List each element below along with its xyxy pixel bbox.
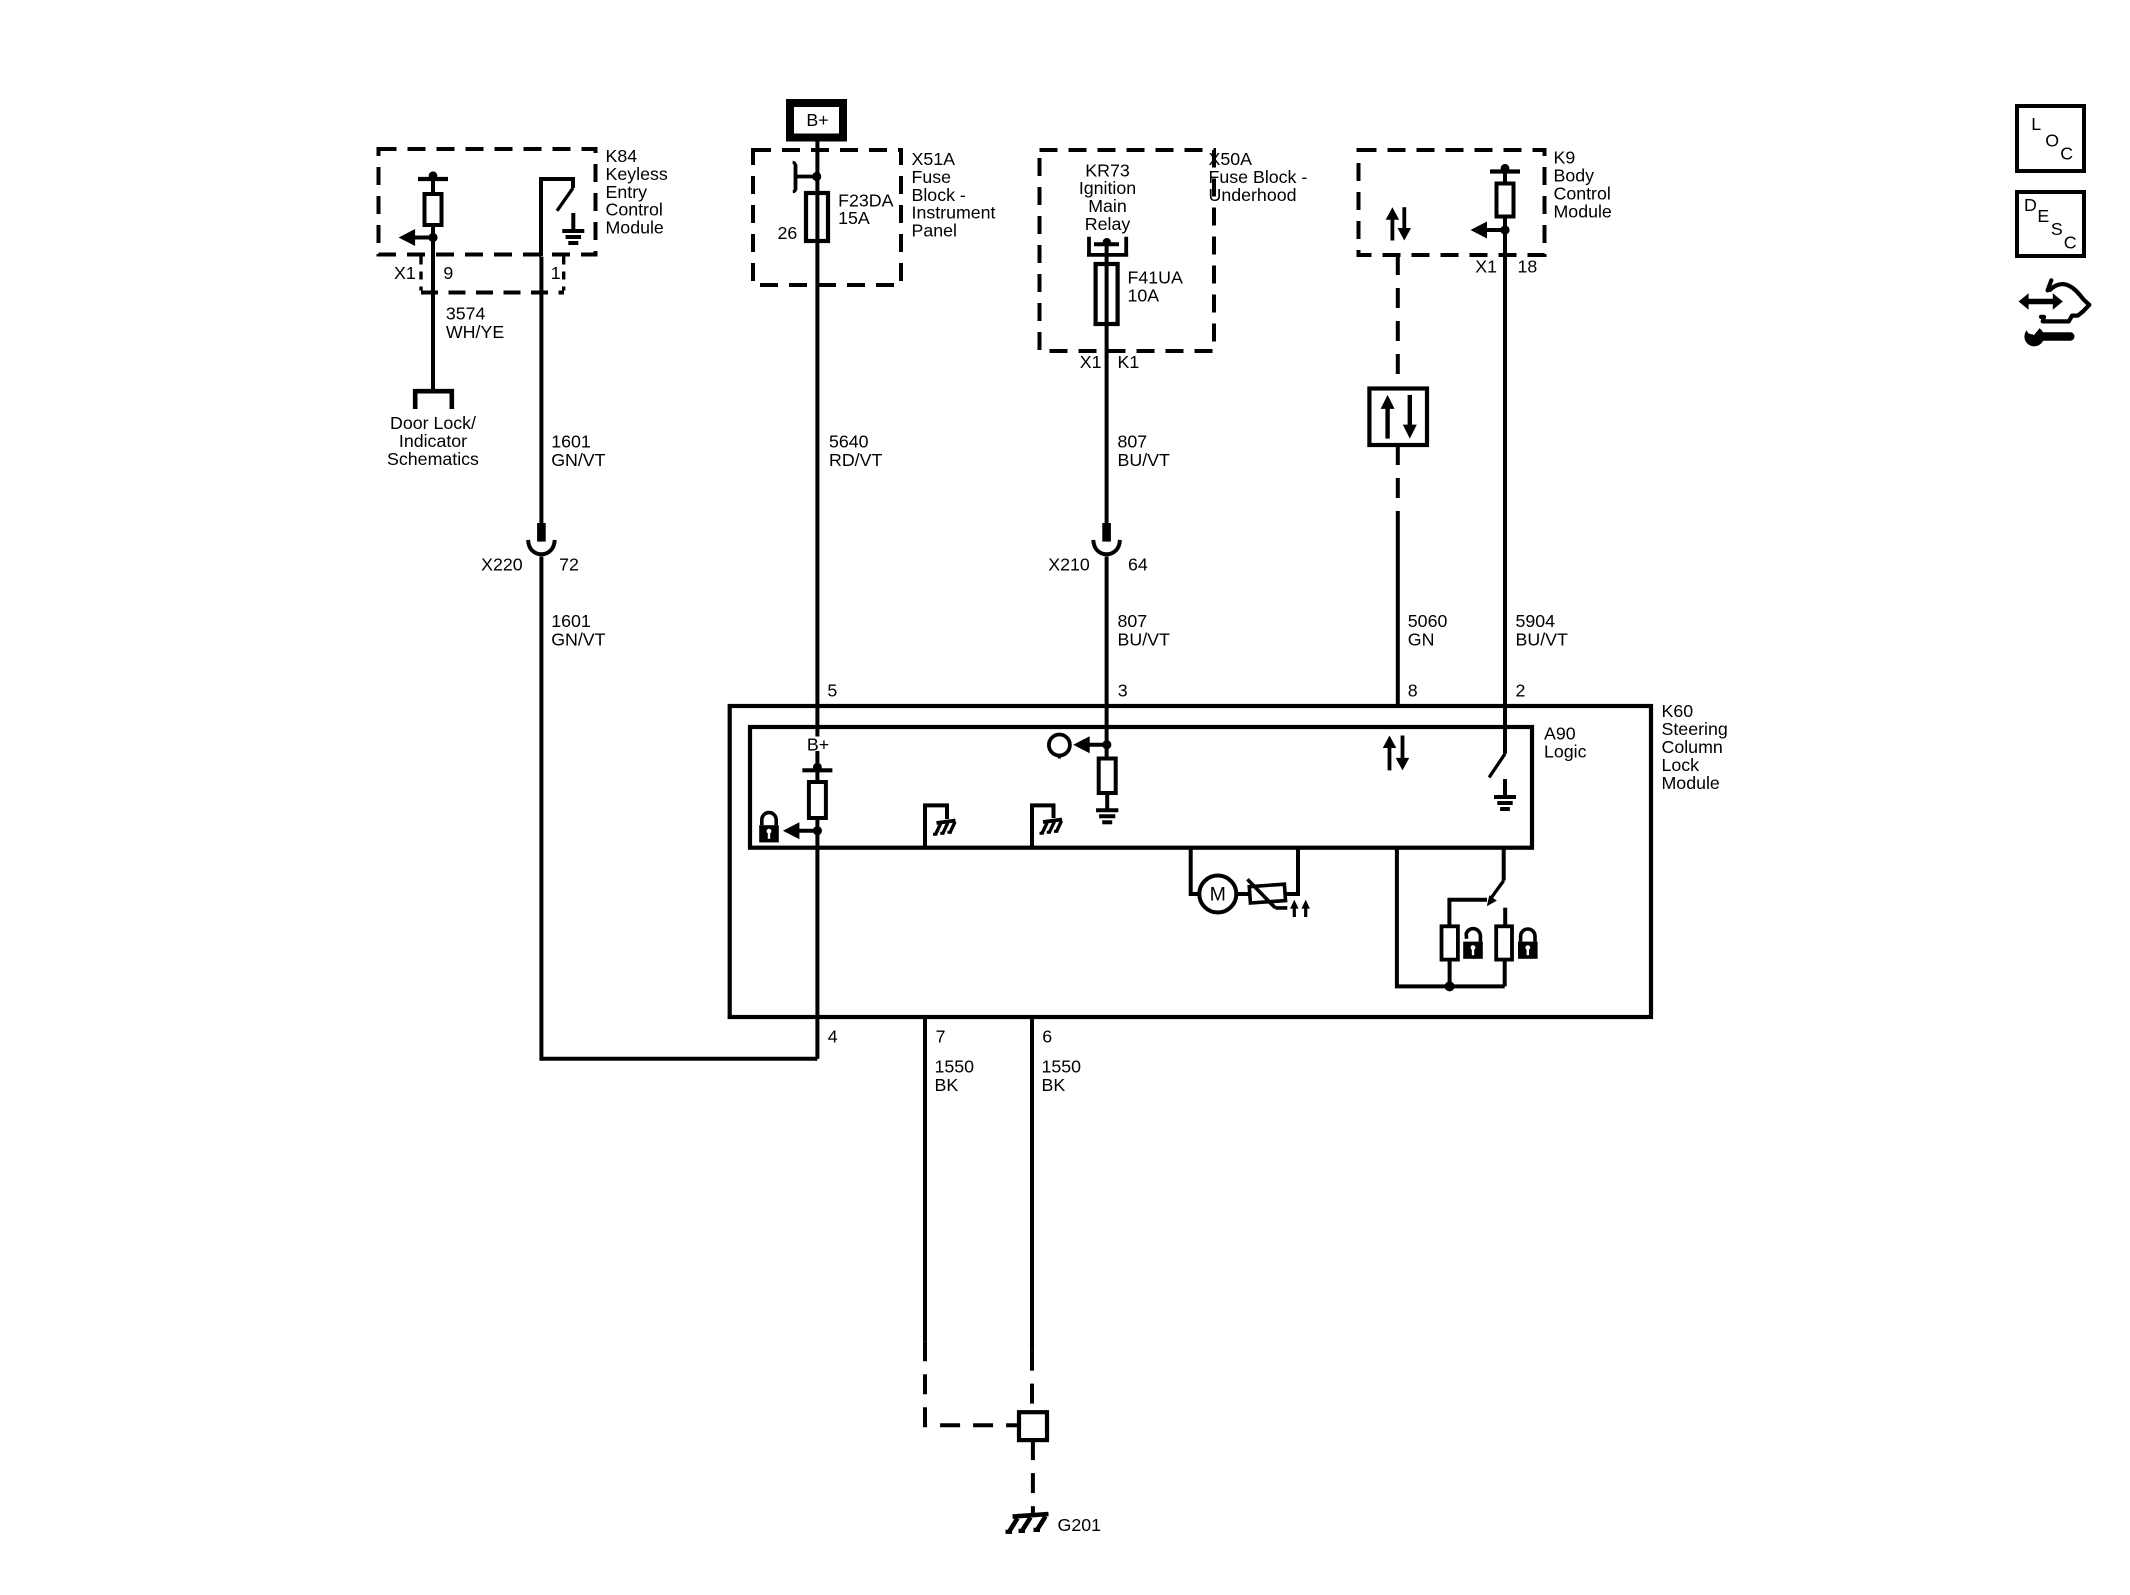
logic block A90 box bbox=[750, 727, 1532, 848]
wire fuse F41UA to X210 bbox=[1105, 324, 1109, 523]
resistor unlock sense bbox=[1442, 926, 1458, 959]
connector row X1 of K84 bbox=[419, 257, 422, 291]
wire 5060 GN dashed upper segment bbox=[1396, 255, 1400, 389]
serial data arrows inside A90 bbox=[1388, 746, 1392, 770]
svg-text:GN/VT: GN/VT bbox=[551, 629, 605, 649]
svg-text:K1: K1 bbox=[1118, 352, 1140, 372]
wire 5640 RD/VT fuse to K60 pin 5 bbox=[815, 241, 819, 706]
resistor lock sense bbox=[1496, 926, 1512, 959]
junction node pin 3 inside A90 bbox=[1102, 740, 1111, 749]
fuse clip symbol inside X51A bbox=[796, 165, 817, 191]
svg-text:X210: X210 bbox=[1048, 555, 1090, 575]
resistor inside K84 bbox=[418, 177, 448, 181]
wire 5060 GN solid segment to K60 pin 8 bbox=[1396, 524, 1400, 706]
wire A90 to position switch bbox=[1502, 846, 1506, 881]
wire K9 resistor to junction bbox=[1503, 217, 1507, 256]
ground G201 symbol bbox=[1006, 1514, 1049, 1532]
svg-text:BU/VT: BU/VT bbox=[1516, 629, 1569, 649]
svg-text:3574: 3574 bbox=[446, 303, 486, 323]
ground symbol on pin 2 inside A90 bbox=[1503, 779, 1507, 797]
svg-text:1550: 1550 bbox=[935, 1056, 975, 1076]
svg-text:C: C bbox=[2064, 232, 2077, 252]
svg-text:5: 5 bbox=[827, 680, 837, 700]
svg-text:807: 807 bbox=[1118, 611, 1148, 631]
module X51A Fuse Block - Instrument Panel box bbox=[753, 150, 901, 285]
splice X220 bbox=[537, 523, 546, 542]
motor M bbox=[1199, 876, 1236, 913]
internal ground hook pin 6 bbox=[1030, 805, 1054, 818]
fuse F23DA bbox=[806, 193, 828, 241]
svg-text:1601: 1601 bbox=[551, 611, 591, 631]
wire lock resistor down bbox=[1503, 960, 1507, 987]
svg-text:L: L bbox=[2031, 114, 2041, 134]
junction node K9 pin 18 bbox=[1500, 225, 1509, 234]
svg-text:15A: 15A bbox=[838, 208, 870, 228]
lock request arrow inside A90 bbox=[797, 829, 817, 833]
svg-text:M: M bbox=[1210, 884, 1226, 906]
svg-text:7: 7 bbox=[936, 1026, 946, 1046]
serial data link box on 5060 wire bbox=[1369, 389, 1427, 446]
svg-text:BK: BK bbox=[935, 1075, 959, 1095]
svg-text:807: 807 bbox=[1118, 431, 1148, 451]
svg-text:Schematics: Schematics bbox=[387, 449, 479, 469]
contact stub to lock resistor bbox=[1503, 908, 1507, 927]
svg-text:O: O bbox=[2045, 131, 2059, 151]
svg-text:1601: 1601 bbox=[551, 431, 591, 451]
wire 5060 GN dashed lower segment bbox=[1396, 445, 1400, 524]
svg-text:X1: X1 bbox=[1080, 352, 1102, 372]
svg-text:Module: Module bbox=[606, 218, 664, 238]
wire 807 BU/VT from X210 to K60 pin 3 bbox=[1105, 557, 1109, 707]
svg-text:WH/YE: WH/YE bbox=[446, 322, 504, 342]
svg-text:S: S bbox=[2051, 219, 2063, 239]
ground splice box bbox=[1019, 1412, 1047, 1440]
wire pin 3 into A90 bbox=[1105, 706, 1109, 759]
svg-text:6: 6 bbox=[1042, 1026, 1052, 1046]
svg-text:64: 64 bbox=[1128, 555, 1148, 575]
off-page connector to Door Lock/Indicator Schematics bbox=[415, 391, 452, 409]
module X50A Fuse Block - Underhood box bbox=[1040, 150, 1215, 351]
legend DESC box bbox=[2017, 192, 2084, 256]
svg-text:X1: X1 bbox=[1475, 257, 1497, 277]
switch inside K84 bbox=[541, 179, 573, 256]
ground symbol on pin 3 inside A90 bbox=[1105, 793, 1109, 810]
svg-text:10A: 10A bbox=[1128, 285, 1160, 305]
svg-text:Underhood: Underhood bbox=[1209, 185, 1297, 205]
signal arrow inside K9 bbox=[1485, 228, 1505, 232]
wire pin 7 ground 1550 BK bbox=[923, 1017, 927, 1341]
relay KR73 contact symbol bbox=[1087, 237, 1128, 255]
svg-text:4: 4 bbox=[828, 1026, 838, 1046]
wire pin 7 inside A90 to ground hook bbox=[923, 805, 927, 847]
junction node below resistors bbox=[1445, 981, 1455, 991]
svg-text:1: 1 bbox=[551, 263, 561, 283]
svg-text:18: 18 bbox=[1518, 257, 1538, 277]
svg-text:BU/VT: BU/VT bbox=[1118, 629, 1171, 649]
position switch blade bbox=[1490, 881, 1504, 900]
svg-text:1550: 1550 bbox=[1042, 1056, 1082, 1076]
svg-text:X1: X1 bbox=[394, 263, 416, 283]
wire pin 5 into A90 bbox=[815, 706, 819, 737]
fuse F41UA bbox=[1096, 264, 1118, 324]
wire thermal protector to A90 bbox=[1285, 848, 1298, 894]
resistor on pin 3 line inside A90 bbox=[1099, 759, 1116, 794]
serial data arrows inside K9 bbox=[1391, 218, 1395, 241]
junction node inside A90 bbox=[813, 826, 822, 835]
wire KR73 to fuse F41UA bbox=[1105, 244, 1109, 264]
svg-text:Module: Module bbox=[1662, 773, 1720, 793]
svg-text:72: 72 bbox=[559, 555, 579, 575]
temperature rise arrows bbox=[1293, 907, 1296, 917]
resistor inside K9 bbox=[1490, 169, 1520, 173]
svg-text:D: D bbox=[2024, 195, 2037, 215]
wire K84 resistor to junction bbox=[431, 225, 435, 257]
wire splice box to G201 dashed bbox=[1031, 1440, 1035, 1513]
wire A90 resistor to pin 4 bbox=[815, 818, 819, 1059]
junction node at fuse clip bbox=[812, 172, 821, 181]
internal ground hook pin 7 bbox=[923, 805, 947, 819]
wire K84 pin 1 down bbox=[539, 257, 543, 524]
battery feed bar inside A90 bbox=[802, 768, 832, 772]
switch inside A90 on pin 2 bbox=[1489, 754, 1505, 778]
wire pin 6 inside A90 to ground hook bbox=[1030, 805, 1034, 847]
wire pin 6 dashed to splice box bbox=[1030, 1351, 1034, 1413]
module K9 Body Control Module box bbox=[1359, 150, 1545, 255]
wire through fuse F23DA bbox=[815, 193, 819, 241]
svg-text:B+: B+ bbox=[806, 110, 828, 130]
svg-text:BU/VT: BU/VT bbox=[1118, 450, 1171, 470]
legend service icon wrench bbox=[2024, 327, 2044, 347]
signal arrow inside K84 bbox=[413, 236, 433, 240]
wire pin 2 into A90 bbox=[1503, 706, 1507, 754]
wire switch contact to unlock resistor bbox=[1449, 900, 1487, 927]
svg-text:Logic: Logic bbox=[1544, 741, 1587, 761]
svg-text:BK: BK bbox=[1042, 1075, 1066, 1095]
wire through fuse F41UA bbox=[1105, 264, 1109, 324]
wire motor to thermal protector bbox=[1236, 892, 1251, 896]
module K60 Steering Column Lock Module box bbox=[730, 706, 1651, 1017]
svg-text:9: 9 bbox=[443, 263, 453, 283]
padlock closed icon at lock resistor bbox=[1518, 942, 1538, 959]
thermal protector PTC bbox=[1249, 884, 1285, 903]
svg-text:X220: X220 bbox=[481, 555, 523, 575]
ground symbol inside K84 bbox=[571, 213, 575, 231]
svg-text:Relay: Relay bbox=[1085, 214, 1131, 234]
svg-text:E: E bbox=[2037, 206, 2049, 226]
padlock open icon bbox=[1463, 942, 1483, 959]
svg-text:5904: 5904 bbox=[1516, 611, 1556, 631]
power terminal B+ bbox=[790, 103, 843, 138]
wire B+ to fuse F23DA bbox=[815, 140, 819, 193]
wire K84 pin 9 down bbox=[431, 257, 435, 390]
legend service icon arrow bbox=[2027, 299, 2054, 304]
serial data arrows in link box bbox=[1385, 407, 1389, 439]
svg-text:Module: Module bbox=[1554, 201, 1612, 221]
legend service icon panel outline bbox=[2048, 280, 2052, 290]
svg-text:GN/VT: GN/VT bbox=[551, 450, 605, 470]
wire pin 7 dashed to splice box bbox=[925, 1341, 1019, 1425]
padlock closed icon inside A90 bbox=[759, 825, 779, 842]
svg-text:5640: 5640 bbox=[829, 431, 869, 451]
junction node K84 pin 9 bbox=[428, 233, 437, 242]
svg-text:26: 26 bbox=[778, 223, 798, 243]
svg-text:G201: G201 bbox=[1058, 1515, 1102, 1535]
wire pin 6 ground 1550 BK bbox=[1030, 1017, 1034, 1351]
wire A90 to motor bbox=[1191, 848, 1200, 894]
key status arrow inside A90 bbox=[1088, 743, 1107, 747]
key symbol circle inside A90 bbox=[1049, 735, 1070, 756]
svg-text:GN: GN bbox=[1408, 629, 1435, 649]
splice X210 bbox=[1102, 523, 1111, 542]
wire 5904 BU/VT K9 to K60 pin 2 bbox=[1503, 255, 1507, 706]
svg-text:2: 2 bbox=[1516, 680, 1526, 700]
legend LOC box bbox=[2017, 106, 2084, 171]
svg-text:C: C bbox=[2060, 144, 2073, 164]
module K84 Keyless Entry Control Module box bbox=[379, 149, 596, 255]
svg-text:RD/VT: RD/VT bbox=[829, 450, 882, 470]
svg-text:5060: 5060 bbox=[1408, 611, 1448, 631]
resistor inside A90 on B+ feed bbox=[809, 782, 826, 818]
wire A90 feedback return bbox=[1397, 848, 1505, 987]
svg-text:8: 8 bbox=[1408, 680, 1418, 700]
wire unlock resistor to junction bbox=[1448, 960, 1452, 987]
svg-text:Panel: Panel bbox=[912, 221, 957, 241]
wire 1601 GN/VT from X220 to K60 pin 4 bbox=[541, 557, 817, 1059]
svg-text:3: 3 bbox=[1118, 680, 1128, 700]
